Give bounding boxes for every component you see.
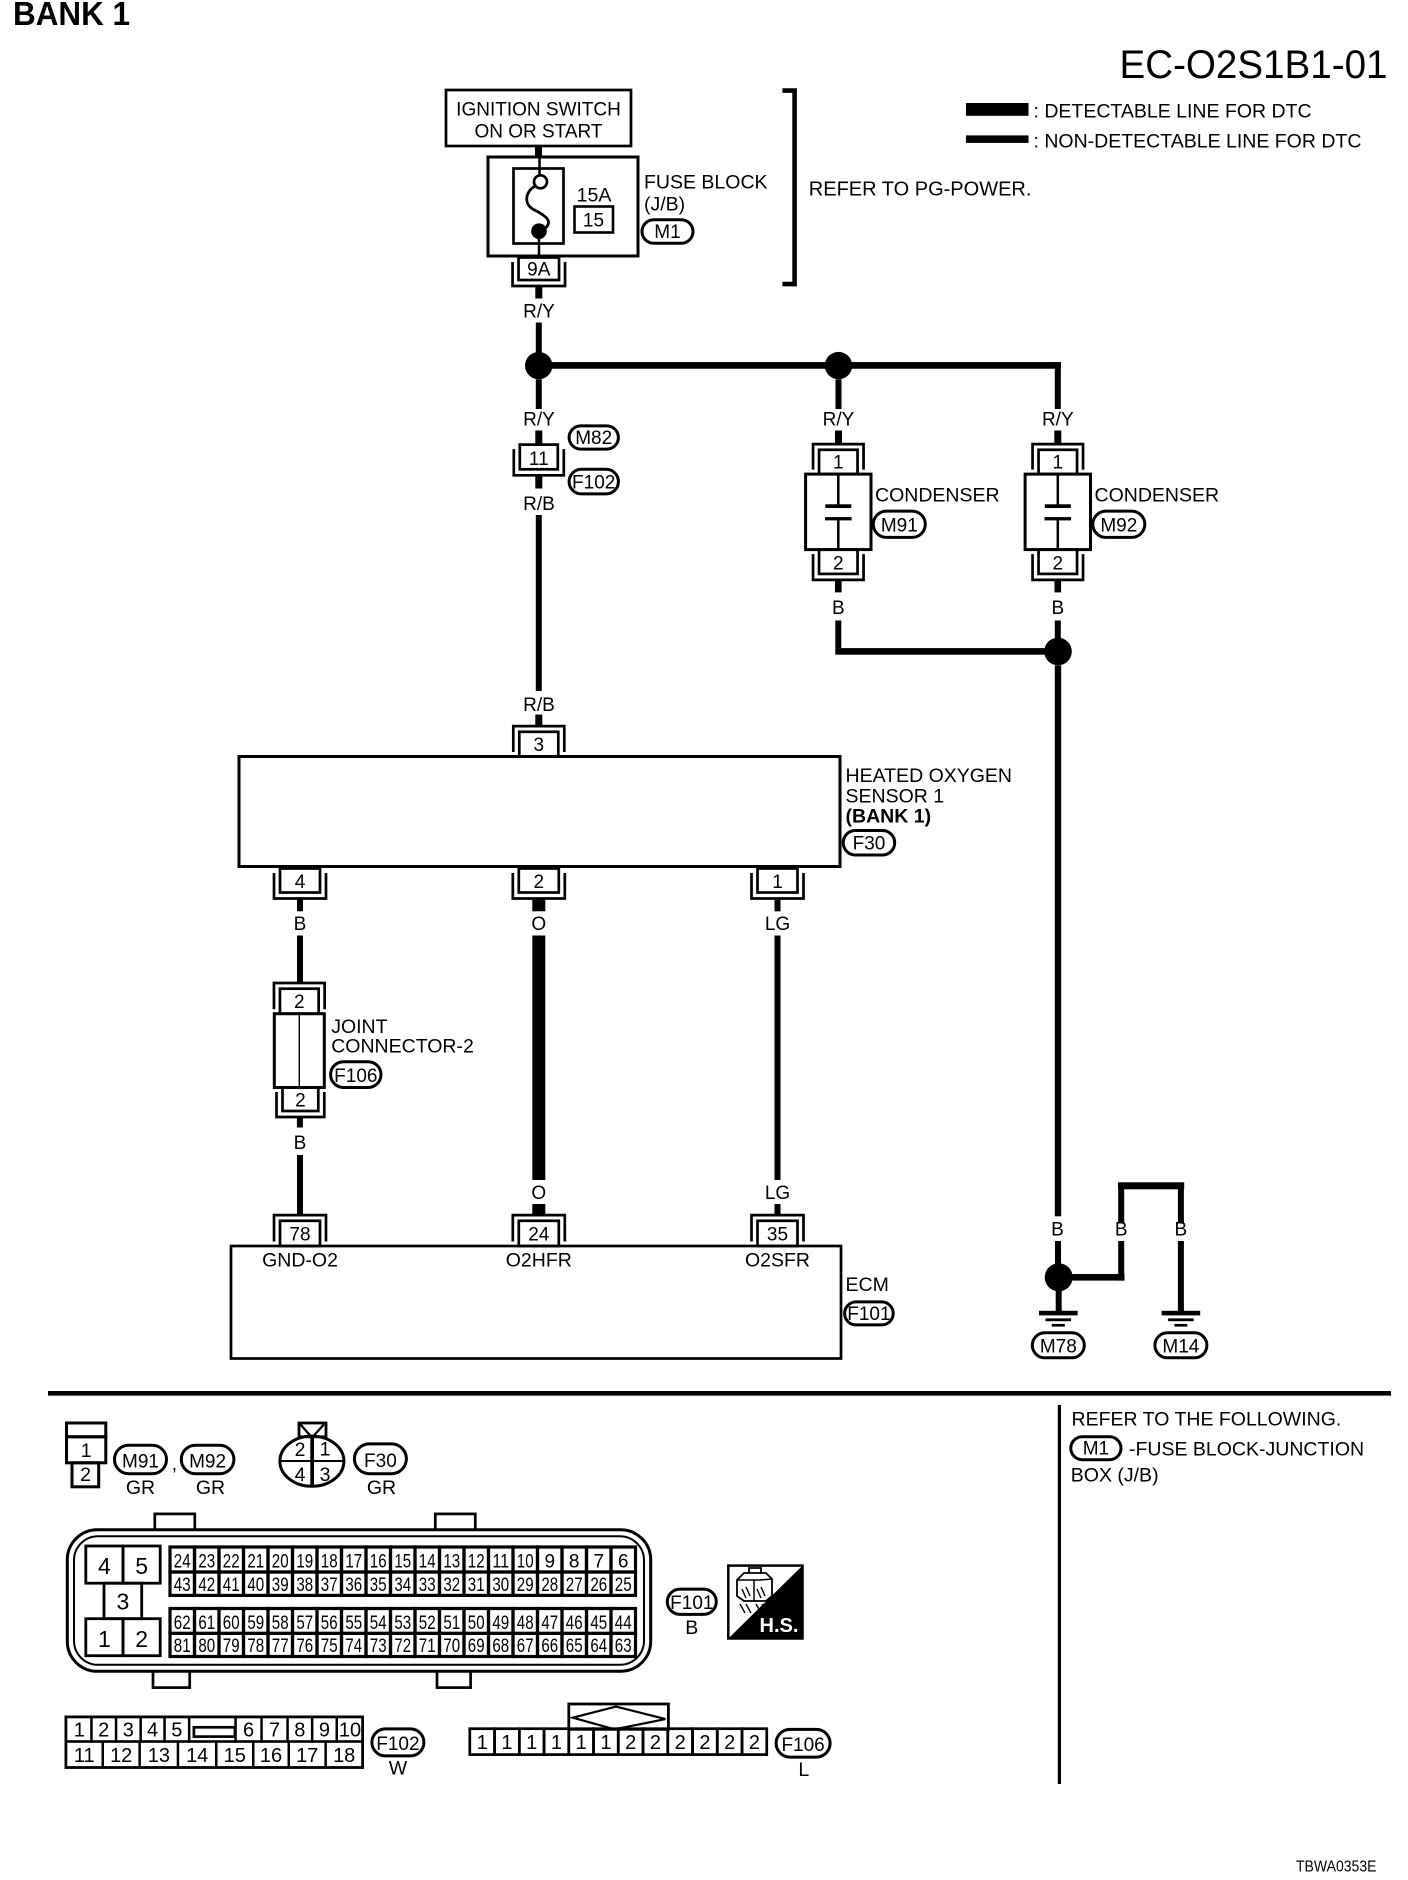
- condenser M92 label: [1093, 485, 1219, 538]
- svg-text:25: 25: [615, 1575, 632, 1596]
- svg-text:8: 8: [294, 1720, 305, 1742]
- svg-text:28: 28: [541, 1575, 558, 1596]
- svg-text:2: 2: [724, 1732, 735, 1754]
- footer color L (F106): [798, 1759, 809, 1781]
- svg-text:59: 59: [247, 1613, 264, 1634]
- svg-text:BANK 1: BANK 1: [13, 0, 130, 32]
- svg-text:(J/B): (J/B): [644, 194, 685, 216]
- svg-text:GR: GR: [126, 1477, 155, 1499]
- svg-text:57: 57: [296, 1613, 313, 1634]
- HO2S pin 2: [513, 869, 565, 899]
- svg-text:12: 12: [468, 1552, 485, 1573]
- wire top bar of inverted U: [1118, 1182, 1184, 1189]
- svg-text:1: 1: [772, 872, 783, 893]
- svg-text:48: 48: [517, 1613, 534, 1634]
- svg-text:38: 38: [296, 1575, 313, 1596]
- svg-text:CONDENSER: CONDENSER: [875, 485, 1000, 507]
- feed wire horizontal R/Y: [539, 362, 1061, 369]
- svg-text:2: 2: [98, 1720, 109, 1742]
- svg-text:13: 13: [148, 1745, 170, 1767]
- wire B long run to ground: [1055, 665, 1061, 1216]
- svg-text:44: 44: [615, 1613, 632, 1634]
- HO2S pin 4: [274, 869, 326, 899]
- wire stub below connector 11: [535, 475, 542, 488]
- svg-text:56: 56: [321, 1613, 338, 1634]
- svg-text:1: 1: [98, 1626, 111, 1652]
- svg-text:9: 9: [545, 1552, 556, 1573]
- svg-text:43: 43: [174, 1575, 191, 1596]
- svg-text:36: 36: [345, 1575, 362, 1596]
- svg-text:11: 11: [74, 1745, 95, 1767]
- svg-text:46: 46: [566, 1613, 583, 1634]
- HO2S pin 1: [752, 869, 804, 899]
- footer ECM connector face F101: [67, 1514, 650, 1688]
- wire label B (above ground junction): [1051, 1220, 1064, 1241]
- wire middle leg up: [1118, 1241, 1124, 1281]
- wire label LG (above ECM pin 35): [765, 1183, 790, 1204]
- svg-text:17: 17: [296, 1745, 318, 1767]
- svg-text:-FUSE BLOCK-JUNCTION: -FUSE BLOCK-JUNCTION: [1129, 1439, 1364, 1461]
- footer 2-pin connector face M91/M92: [67, 1423, 106, 1487]
- svg-text:69: 69: [468, 1636, 485, 1657]
- wire stub into condenser M92: [1054, 431, 1061, 445]
- svg-text:M14: M14: [1162, 1336, 1199, 1357]
- svg-text:R/Y: R/Y: [1042, 410, 1074, 431]
- wire B from M92 to junction C: [1055, 621, 1061, 641]
- svg-text:68: 68: [492, 1636, 509, 1657]
- svg-text:33: 33: [419, 1575, 436, 1596]
- svg-text:F102: F102: [572, 472, 615, 493]
- svg-text:2: 2: [80, 1464, 91, 1486]
- svg-text:1: 1: [526, 1732, 537, 1754]
- svg-text:12: 12: [110, 1745, 132, 1767]
- svg-text:53: 53: [394, 1613, 411, 1634]
- footer connector ref F102: [372, 1729, 424, 1756]
- footer color B (F101): [685, 1617, 698, 1639]
- junction node C: [1044, 638, 1072, 666]
- svg-text:41: 41: [223, 1575, 240, 1596]
- condenser M92 pin 1: [1033, 444, 1084, 474]
- svg-text:O: O: [531, 1183, 546, 1204]
- svg-text:2: 2: [625, 1732, 636, 1754]
- svg-text:4: 4: [147, 1720, 158, 1742]
- svg-text:M92: M92: [1100, 516, 1137, 537]
- condenser M91 label: [873, 485, 999, 538]
- svg-text:6: 6: [243, 1720, 254, 1742]
- svg-text:15: 15: [583, 211, 604, 232]
- svg-text:GR: GR: [367, 1477, 396, 1499]
- svg-text:15: 15: [224, 1745, 246, 1767]
- svg-text:19: 19: [296, 1552, 313, 1573]
- footer connector face F102: [66, 1717, 363, 1768]
- svg-text:76: 76: [296, 1636, 313, 1657]
- svg-text:32: 32: [443, 1575, 460, 1596]
- wire label R/B (below connector 11): [523, 494, 555, 515]
- svg-text:IGNITION SWITCH: IGNITION SWITCH: [456, 100, 621, 121]
- fuse number 15 box: [575, 207, 614, 233]
- ground junction node D: [1045, 1263, 1073, 1291]
- wire label O (below pin 2): [531, 914, 546, 935]
- svg-text:REFER TO PG-POWER.: REFER TO PG-POWER.: [809, 178, 1032, 200]
- svg-text:F101: F101: [670, 1593, 713, 1614]
- svg-text:REFER TO THE FOLLOWING.: REFER TO THE FOLLOWING.: [1072, 1409, 1342, 1431]
- connector ref F30: [843, 831, 895, 856]
- svg-text:EC-O2S1B1-01: EC-O2S1B1-01: [1120, 43, 1388, 87]
- wire R/Y corner down to condenser M92: [1055, 362, 1061, 409]
- svg-text:45: 45: [590, 1613, 607, 1634]
- junction node B: [825, 352, 852, 379]
- wire label B (middle leg): [1115, 1220, 1128, 1241]
- wire B to ECM pin 78: [297, 1155, 303, 1215]
- svg-text:9A: 9A: [527, 260, 551, 281]
- wire stub into ECM pin 35: [775, 1204, 781, 1216]
- wire stub below pin 2 (thick): [532, 899, 545, 912]
- wire R/Y junction A down: [536, 379, 542, 409]
- svg-text:2: 2: [699, 1732, 710, 1754]
- svg-text:6: 6: [618, 1552, 629, 1573]
- svg-text:4: 4: [295, 872, 306, 893]
- svg-text:74: 74: [345, 1636, 362, 1657]
- svg-text:42: 42: [198, 1575, 215, 1596]
- wire label B (right leg): [1175, 1220, 1188, 1241]
- svg-text:58: 58: [272, 1613, 289, 1634]
- joint connector-2 labels: [331, 1016, 474, 1057]
- connector ref M82: [569, 426, 618, 449]
- svg-text:21: 21: [247, 1552, 264, 1573]
- connector ref F106: [331, 1062, 381, 1088]
- svg-text:O: O: [531, 914, 546, 935]
- wire label R/Y (above condenser M92): [1042, 410, 1074, 431]
- footer connector ref F30: [354, 1444, 406, 1474]
- HO2S pin 3: [513, 726, 564, 756]
- note fuse block junction box: [1071, 1439, 1364, 1487]
- svg-text:34: 34: [394, 1575, 411, 1596]
- wire from junction D to M78 ground: [1056, 1291, 1062, 1311]
- drawing number TBWA0353E: [1296, 1859, 1377, 1876]
- svg-text:62: 62: [174, 1613, 191, 1634]
- wire label R/Y (above connector 11): [523, 410, 555, 431]
- wire label R/B (above HO2S pin 3): [523, 695, 555, 716]
- svg-text:18: 18: [333, 1745, 355, 1767]
- svg-text:16: 16: [260, 1745, 282, 1767]
- svg-text:L: L: [798, 1759, 809, 1781]
- title BANK 1: [13, 0, 130, 32]
- svg-text:39: 39: [272, 1575, 289, 1596]
- svg-text:F106: F106: [334, 1066, 377, 1087]
- bracket for fuse block note: [782, 91, 794, 285]
- svg-text:M78: M78: [1040, 1336, 1077, 1357]
- svg-text:15A: 15A: [577, 185, 612, 207]
- separator line: [48, 1391, 1391, 1396]
- svg-text:HEATED OXYGEN: HEATED OXYGEN: [846, 765, 1013, 787]
- wire R/Y down to junction: [536, 323, 542, 353]
- svg-text:10: 10: [339, 1720, 361, 1742]
- svg-text:66: 66: [541, 1636, 558, 1657]
- condenser M91 body: [806, 474, 871, 550]
- wire B from M91 to junction C: [835, 621, 1058, 655]
- fuse rating 15A: [577, 185, 612, 207]
- svg-text:81: 81: [174, 1636, 191, 1657]
- fuse 15A symbol: [514, 157, 564, 257]
- svg-text:1: 1: [74, 1720, 85, 1742]
- svg-text:5: 5: [135, 1553, 148, 1579]
- svg-text:47: 47: [541, 1613, 558, 1634]
- svg-text:20: 20: [272, 1552, 289, 1573]
- joint connector-2 pin 2 bottom: [277, 1088, 325, 1118]
- svg-text:63: 63: [615, 1636, 632, 1657]
- fuse block J/B box M1: [488, 157, 638, 256]
- svg-text:35: 35: [370, 1575, 387, 1596]
- wire B into ground junction: [1055, 1241, 1061, 1264]
- connector ref F102: [569, 469, 618, 494]
- svg-text:11: 11: [492, 1552, 509, 1573]
- wire label R/Y (below 9A): [523, 302, 555, 323]
- svg-text:R/Y: R/Y: [523, 302, 555, 323]
- ground M14: [1155, 1311, 1207, 1358]
- svg-text:37: 37: [321, 1575, 338, 1596]
- svg-text:16: 16: [370, 1552, 387, 1573]
- condenser M92 body: [1025, 474, 1090, 550]
- svg-text:TBWA0353E: TBWA0353E: [1296, 1859, 1377, 1876]
- diagram code EC-O2S1B1-01: [1120, 43, 1388, 87]
- wire LG run: [775, 936, 781, 1181]
- svg-text:10: 10: [517, 1552, 534, 1573]
- svg-text:79: 79: [223, 1636, 240, 1657]
- svg-text:23: 23: [198, 1552, 215, 1573]
- ECM pin 24: [513, 1215, 565, 1246]
- hand symbol H.S. view mark: [728, 1566, 802, 1639]
- wire stub into ECM pin 24 (thick): [532, 1204, 545, 1216]
- joint connector-2 pin 2 top: [274, 983, 325, 1014]
- svg-text:2: 2: [1053, 553, 1064, 574]
- svg-text:70: 70: [443, 1636, 460, 1657]
- note REFER TO THE FOLLOWING: [1072, 1409, 1342, 1431]
- svg-text:1: 1: [551, 1732, 562, 1754]
- svg-text:B: B: [294, 1133, 307, 1154]
- svg-text:4: 4: [295, 1464, 306, 1486]
- svg-text:SENSOR 1: SENSOR 1: [846, 785, 945, 807]
- footer connector ref F101: [667, 1589, 716, 1614]
- wire R/Y junction B down: [836, 379, 842, 409]
- wire right leg to M14 ground: [1178, 1241, 1184, 1311]
- svg-text:2: 2: [675, 1732, 686, 1754]
- condenser M92 pin 2: [1033, 550, 1084, 580]
- svg-text:2: 2: [749, 1732, 760, 1754]
- ignition switch box: [446, 90, 631, 146]
- svg-text:R/Y: R/Y: [523, 410, 555, 431]
- svg-text:1: 1: [81, 1440, 92, 1462]
- wire junction D to middle leg: [1070, 1274, 1125, 1281]
- wire stub below pin 1: [775, 899, 781, 912]
- svg-text:M91: M91: [122, 1451, 159, 1472]
- svg-text:78: 78: [289, 1225, 310, 1246]
- svg-text:R/B: R/B: [523, 695, 555, 716]
- svg-text:GND-O2: GND-O2: [262, 1250, 338, 1272]
- svg-text:O2HFR: O2HFR: [506, 1250, 572, 1272]
- svg-text:7: 7: [269, 1720, 280, 1742]
- svg-text:9: 9: [319, 1720, 330, 1742]
- svg-text:B: B: [832, 598, 845, 619]
- svg-text:M91: M91: [881, 516, 918, 537]
- svg-text:1: 1: [477, 1732, 488, 1754]
- svg-text:5: 5: [171, 1720, 182, 1742]
- svg-text:40: 40: [247, 1575, 264, 1596]
- svg-text:64: 64: [590, 1636, 607, 1657]
- wire label R/Y (above condenser M91): [823, 410, 855, 431]
- svg-text:18: 18: [321, 1552, 338, 1573]
- svg-text:2: 2: [833, 553, 844, 574]
- wire label O (above ECM pin 24): [531, 1183, 546, 1204]
- svg-text:CONNECTOR-2: CONNECTOR-2: [331, 1035, 474, 1057]
- fuse block labels: [644, 172, 768, 216]
- condenser M91 pin 1: [813, 444, 864, 474]
- footer round connector face F30: [280, 1423, 344, 1486]
- wire right leg down: [1178, 1189, 1184, 1223]
- svg-text:3: 3: [117, 1589, 130, 1615]
- svg-text:65: 65: [566, 1636, 583, 1657]
- connector terminal 11: [514, 445, 564, 476]
- footer connector refs M91, M92: [115, 1445, 234, 1475]
- footer color GR GR: [126, 1477, 225, 1499]
- wire R/B long run: [536, 515, 542, 691]
- svg-text:4: 4: [98, 1553, 111, 1579]
- svg-text:ECM: ECM: [846, 1274, 889, 1296]
- svg-text:LG: LG: [765, 1183, 790, 1204]
- svg-text:2: 2: [135, 1626, 148, 1652]
- svg-text:2: 2: [650, 1732, 661, 1754]
- svg-text:B: B: [1175, 1220, 1188, 1241]
- svg-text:,: ,: [172, 1454, 177, 1475]
- wire stub below pin 4: [297, 899, 303, 912]
- svg-text:30: 30: [492, 1575, 509, 1596]
- svg-text:35: 35: [767, 1225, 788, 1246]
- svg-text:14: 14: [186, 1745, 208, 1767]
- wire stub into condenser M91: [835, 431, 842, 445]
- joint connector-2 body F106: [274, 1014, 324, 1088]
- ECM pin 78: [274, 1215, 326, 1246]
- svg-text:61: 61: [198, 1613, 215, 1634]
- svg-text:F30: F30: [364, 1451, 397, 1472]
- wire stub below 9A: [535, 286, 542, 299]
- svg-text:M1: M1: [1083, 1439, 1109, 1460]
- svg-text:2: 2: [534, 872, 545, 893]
- svg-text:3: 3: [534, 735, 545, 756]
- svg-text:(BANK 1): (BANK 1): [846, 806, 932, 828]
- svg-text:24: 24: [174, 1552, 191, 1573]
- heated oxygen sensor box F30: [239, 757, 840, 867]
- footer connector face F106: [470, 1704, 767, 1755]
- svg-text:73: 73: [370, 1636, 387, 1657]
- svg-text:ON OR START: ON OR START: [474, 122, 602, 143]
- svg-text:55: 55: [345, 1613, 362, 1634]
- svg-text:H.S.: H.S.: [760, 1615, 799, 1637]
- svg-text:77: 77: [272, 1636, 289, 1657]
- svg-text:FUSE BLOCK: FUSE BLOCK: [644, 172, 768, 194]
- svg-text:54: 54: [370, 1613, 387, 1634]
- svg-text:11: 11: [529, 449, 549, 470]
- wire stub into connector 11: [535, 431, 542, 445]
- footer connector ref F106: [776, 1729, 830, 1757]
- wire middle leg above label: [1118, 1189, 1124, 1223]
- svg-text:24: 24: [528, 1225, 550, 1246]
- svg-text:17: 17: [345, 1552, 362, 1573]
- wire ignition switch to fuse block: [535, 146, 542, 157]
- svg-text:80: 80: [198, 1636, 215, 1657]
- svg-text:67: 67: [517, 1636, 534, 1657]
- svg-text:: NON-DETECTABLE LINE FOR DTC: : NON-DETECTABLE LINE FOR DTC: [1034, 131, 1362, 153]
- connector terminal 9A: [513, 258, 566, 287]
- wire stub below joint connector: [297, 1117, 303, 1127]
- svg-text:8: 8: [569, 1552, 580, 1573]
- junction node A: [525, 352, 552, 379]
- svg-text:1: 1: [600, 1732, 611, 1754]
- svg-text:W: W: [389, 1758, 408, 1780]
- svg-text:3: 3: [123, 1720, 134, 1742]
- svg-text:2: 2: [294, 992, 305, 1013]
- svg-text:R/Y: R/Y: [823, 410, 855, 431]
- svg-text:GR: GR: [196, 1477, 225, 1499]
- svg-text:7: 7: [594, 1552, 605, 1573]
- svg-text:27: 27: [566, 1575, 583, 1596]
- wire stub into HO2S pin 3: [535, 715, 542, 728]
- svg-text:50: 50: [468, 1613, 485, 1634]
- svg-text:B: B: [1051, 598, 1064, 619]
- wire B to joint connector: [297, 936, 303, 983]
- wire stub below condenser M92: [1055, 579, 1062, 592]
- svg-text:M92: M92: [189, 1451, 226, 1472]
- footer color W (F102): [389, 1758, 408, 1780]
- svg-text:B: B: [685, 1617, 698, 1639]
- legend detectable line for DTC: [966, 101, 1312, 123]
- svg-text:F106: F106: [781, 1735, 824, 1756]
- svg-text:75: 75: [321, 1636, 338, 1657]
- svg-text:CONDENSER: CONDENSER: [1095, 485, 1220, 507]
- svg-text:26: 26: [590, 1575, 607, 1596]
- ECM pin 35: [752, 1215, 804, 1246]
- wire label B (below M92): [1051, 598, 1064, 619]
- wire label LG (below pin 1): [765, 914, 790, 935]
- ECM terminal names: [262, 1250, 810, 1272]
- svg-text:31: 31: [468, 1575, 485, 1596]
- svg-text:B: B: [1051, 1220, 1064, 1241]
- note REFER TO PG-POWER: [809, 178, 1032, 200]
- wire label B (below joint connector): [294, 1133, 307, 1154]
- svg-text:2: 2: [295, 1091, 306, 1112]
- connector ref M1: [642, 220, 693, 244]
- svg-text:71: 71: [419, 1636, 436, 1657]
- svg-text:O2SFR: O2SFR: [745, 1250, 810, 1272]
- wire label B (below pin 4): [294, 914, 307, 935]
- wire O detectable (thick): [532, 936, 545, 1181]
- ground M78: [1032, 1311, 1084, 1358]
- ECM box F101: [231, 1246, 841, 1359]
- svg-text:72: 72: [394, 1636, 411, 1657]
- svg-text:15: 15: [394, 1552, 411, 1573]
- svg-text:51: 51: [443, 1613, 460, 1634]
- connector ref M1 (footer): [1071, 1437, 1121, 1460]
- svg-text:R/B: R/B: [523, 494, 555, 515]
- svg-text:1: 1: [501, 1732, 512, 1754]
- svg-text:M1: M1: [654, 222, 680, 243]
- svg-text:52: 52: [419, 1613, 436, 1634]
- legend non-detectable line for DTC: [966, 131, 1361, 153]
- svg-text:LG: LG: [765, 914, 790, 935]
- svg-text:BOX (J/B): BOX (J/B): [1071, 1465, 1159, 1487]
- svg-text:B: B: [294, 914, 307, 935]
- svg-text:M82: M82: [575, 428, 612, 449]
- svg-text:13: 13: [443, 1552, 460, 1573]
- svg-text:1: 1: [833, 453, 844, 474]
